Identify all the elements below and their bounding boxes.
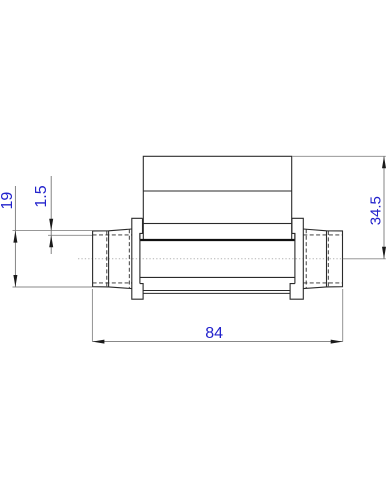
dim 34.5 extension line top [292,155,386,157]
dim 34.5 label [368,196,385,225]
dim 19 arrow up [13,231,17,243]
motor housing split line [143,190,291,192]
dim 84 extension line left [91,289,93,342]
svg-text:84: 84 [205,325,223,342]
dim 19 extension line top [13,230,93,232]
right connector hidden bore lines [303,229,342,288]
tube end cap left (notch) [140,233,143,239]
tube bottom edge [140,276,295,278]
right connector body [303,229,342,289]
dim 1.5 dimension line [50,176,52,254]
dim 1.5 extension line bottom [48,234,92,236]
dim 19 arrow down [13,275,17,287]
dim 34.5 extension line bottom [343,258,386,260]
dim 34.5 dimension line [383,156,385,258]
dim 84 label [205,325,223,342]
dim 84 extension line right [342,289,344,342]
dim 84 arrow left [92,340,104,344]
dim 1.5 arrow up (lower) [49,235,53,247]
dim 84 arrow right [331,340,343,344]
dim 84 dimension line [92,341,342,343]
dim 34.5 arrow up [382,156,386,168]
tube end cap right (notch) [292,233,295,239]
motor housing (top box) [143,156,291,223]
dim 19 dimension line [14,186,16,287]
right mounting flange [290,218,303,299]
svg-text:34.5: 34.5 [368,196,385,225]
svg-text:1.5: 1.5 [33,185,50,207]
left connector body [93,229,132,289]
dim 19 extension line bottom [13,286,93,288]
gear section side edges (below box) [143,224,291,240]
tube top thick edge [140,239,295,241]
dim 1.5 label [33,185,50,207]
left connector hidden bore lines [93,229,132,288]
bottom tie bar (double line) [143,291,290,294]
dim 19 label [0,192,16,210]
svg-text:19: 19 [0,192,16,210]
centerline (main axis) [78,258,342,260]
left mounting flange [132,218,143,299]
dim 1.5 arrow down (upper) [49,219,53,231]
dim 34.5 arrow down [382,247,386,259]
